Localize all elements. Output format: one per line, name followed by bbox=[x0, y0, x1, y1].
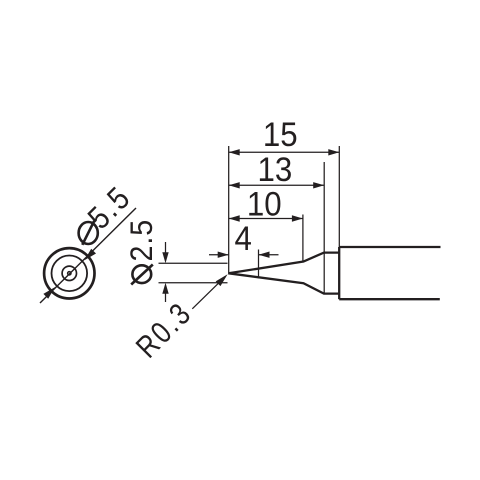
extension line for 13 bbox=[323, 162, 325, 294]
Ø2.5 lower arrow (points up) bbox=[165, 292, 167, 302]
extension line for 15 bbox=[338, 146, 340, 247]
Ø2.5 top extension line bbox=[159, 262, 228, 264]
dim line 10 bbox=[229, 218, 303, 220]
end-view center dot bbox=[68, 272, 71, 275]
Ø5.5 arrowhead upper-right (points toward center) bbox=[84, 249, 96, 261]
end-view outer circle (Ø5.5) bbox=[44, 248, 94, 298]
end-view inner circle (Ø2.5) bbox=[62, 266, 76, 280]
dim line 15 bbox=[229, 151, 340, 153]
extension line for 4 bbox=[258, 250, 260, 279]
svg-text:10: 10 bbox=[247, 184, 282, 223]
dim line 13 bbox=[229, 184, 325, 186]
dim 4 left tail bbox=[209, 254, 229, 256]
arrow 13 right bbox=[313, 182, 324, 188]
tip cone outline bbox=[229, 253, 340, 294]
svg-text:15: 15 bbox=[263, 115, 298, 154]
arrow 15 left bbox=[229, 149, 240, 155]
arrow 10 left bbox=[229, 215, 240, 221]
arrow 4 left (points right) bbox=[218, 252, 229, 258]
Ø5.5 diameter leader line bbox=[40, 208, 136, 303]
dim 4 right tail bbox=[259, 254, 279, 256]
R0.3 leader line bbox=[192, 277, 224, 309]
arrow 15 right bbox=[328, 149, 339, 155]
end-view second circle bbox=[52, 255, 88, 291]
left extension line (tip datum) bbox=[228, 146, 230, 275]
svg-text:R0.3: R0.3 bbox=[130, 295, 200, 365]
Ø5.5 label: diameter symbol bbox=[79, 221, 98, 245]
Ø2.5 label: diameter symbol bbox=[131, 265, 153, 285]
barrel bottom edge bbox=[339, 298, 440, 300]
arrow 10 right bbox=[292, 215, 303, 221]
svg-text:13: 13 bbox=[258, 150, 293, 189]
svg-text:2.5: 2.5 bbox=[125, 219, 160, 261]
extension line for 10 bbox=[302, 215, 304, 262]
svg-text:4: 4 bbox=[235, 219, 252, 258]
barrel top edge bbox=[339, 246, 440, 248]
barrel left edge bbox=[338, 247, 340, 299]
arrow 4 right (points left) bbox=[259, 252, 270, 258]
Ø2.5 upper arrow (points down) bbox=[165, 242, 167, 254]
Ø5.5 arrowhead lower-left (points toward center) bbox=[43, 287, 55, 299]
arrow 13 left bbox=[229, 182, 240, 188]
Ø2.5 bottom extension line bbox=[159, 282, 228, 284]
R0.3 arrowhead (points up-right at tip) bbox=[216, 274, 228, 286]
